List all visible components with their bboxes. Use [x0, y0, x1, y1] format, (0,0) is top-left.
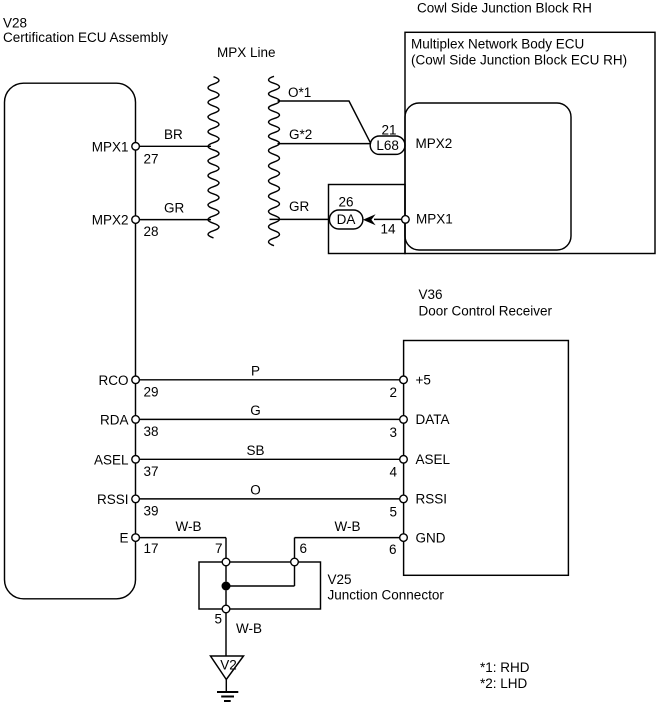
- svg-text:V28: V28: [3, 15, 27, 30]
- svg-text:17: 17: [144, 541, 159, 556]
- svg-text:O*1: O*1: [288, 85, 311, 100]
- svg-text:38: 38: [144, 424, 159, 439]
- svg-text:O: O: [250, 482, 261, 497]
- svg-text:MPX1: MPX1: [92, 139, 129, 154]
- svg-text:GND: GND: [416, 530, 446, 545]
- svg-text:*2: LHD: *2: LHD: [480, 676, 528, 691]
- svg-text:ASEL: ASEL: [94, 452, 129, 467]
- svg-text:MPX Line: MPX Line: [217, 45, 276, 60]
- svg-text:Certification ECU Assembly: Certification ECU Assembly: [3, 30, 168, 45]
- svg-text:5: 5: [214, 612, 222, 627]
- svg-text:2: 2: [389, 385, 397, 400]
- svg-text:28: 28: [144, 224, 159, 239]
- svg-text:(Cowl Side Junction Block ECU: (Cowl Side Junction Block ECU RH): [411, 52, 627, 67]
- svg-text:V25: V25: [328, 572, 352, 587]
- svg-text:RSSI: RSSI: [97, 492, 129, 507]
- svg-text:29: 29: [144, 384, 159, 399]
- svg-text:V2: V2: [220, 658, 237, 673]
- svg-text:7: 7: [215, 541, 223, 556]
- svg-text:Multiplex Network Body ECU: Multiplex Network Body ECU: [411, 37, 584, 52]
- svg-text:MPX2: MPX2: [92, 213, 129, 228]
- svg-text:MPX1: MPX1: [416, 212, 453, 227]
- svg-text:P: P: [251, 363, 260, 378]
- svg-text:G: G: [250, 403, 261, 418]
- svg-text:G*2: G*2: [289, 127, 312, 142]
- svg-text:V36: V36: [419, 287, 443, 302]
- svg-text:RCO: RCO: [99, 373, 129, 388]
- svg-text:6: 6: [389, 542, 397, 557]
- svg-text:+5: +5: [416, 373, 431, 388]
- svg-text:W-B: W-B: [335, 519, 361, 534]
- svg-text:27: 27: [144, 151, 159, 166]
- svg-text:MPX2: MPX2: [416, 136, 453, 151]
- svg-text:SB: SB: [246, 443, 264, 458]
- svg-text:37: 37: [144, 464, 159, 479]
- svg-text:39: 39: [144, 503, 159, 518]
- svg-text:RDA: RDA: [100, 412, 129, 427]
- svg-text:DA: DA: [337, 212, 356, 227]
- svg-text:Door Control Receiver: Door Control Receiver: [419, 304, 553, 319]
- svg-text:*1: RHD: *1: RHD: [480, 660, 530, 675]
- svg-text:E: E: [119, 531, 128, 546]
- svg-text:GR: GR: [289, 199, 310, 214]
- svg-text:GR: GR: [164, 200, 185, 215]
- svg-text:DATA: DATA: [416, 412, 450, 427]
- svg-text:RSSI: RSSI: [416, 492, 448, 507]
- svg-text:Cowl Side Junction Block RH: Cowl Side Junction Block RH: [417, 0, 592, 15]
- svg-text:4: 4: [389, 465, 397, 480]
- svg-text:5: 5: [389, 504, 397, 519]
- svg-text:W-B: W-B: [176, 519, 202, 534]
- svg-text:6: 6: [300, 541, 308, 556]
- svg-text:26: 26: [339, 194, 354, 209]
- svg-text:L68: L68: [376, 138, 399, 153]
- svg-text:21: 21: [382, 122, 397, 137]
- svg-text:BR: BR: [164, 127, 183, 142]
- svg-text:W-B: W-B: [236, 621, 262, 636]
- svg-text:Junction Connector: Junction Connector: [328, 588, 445, 603]
- svg-text:14: 14: [381, 221, 397, 236]
- svg-text:ASEL: ASEL: [416, 452, 451, 467]
- svg-text:3: 3: [389, 425, 397, 440]
